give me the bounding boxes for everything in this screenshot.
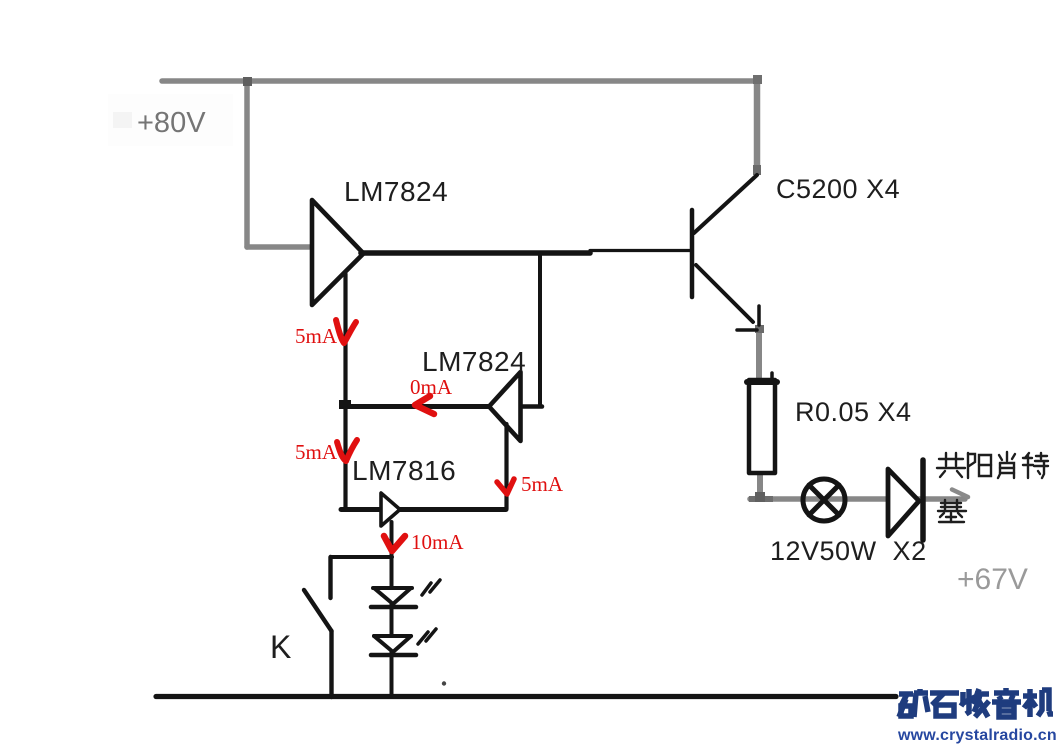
svg-text:R0.05 X4: R0.05 X4 [795,397,912,427]
svg-text:5mA: 5mA [295,440,338,464]
svg-text:10mA: 10mA [411,530,464,554]
svg-text:LM7816: LM7816 [352,455,456,486]
svg-text:+80V: +80V [137,107,206,139]
svg-text:C5200 X4: C5200 X4 [776,174,900,204]
svg-text:www.crystalradio.cn: www.crystalradio.cn [897,727,1057,744]
svg-text:K: K [270,629,291,665]
svg-text:+67V: +67V [957,563,1028,596]
svg-text:LM7824: LM7824 [422,346,526,377]
svg-text:5mA: 5mA [521,472,564,496]
svg-text:LM7824: LM7824 [344,176,448,207]
svg-text:0mA: 0mA [410,375,453,399]
svg-text:5mA: 5mA [295,324,338,348]
svg-text:12V50W X2: 12V50W X2 [770,536,927,566]
